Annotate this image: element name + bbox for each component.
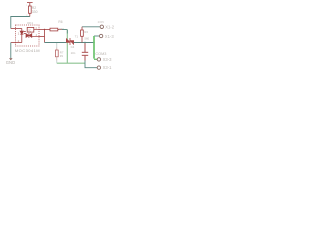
snubber resistor R7 top lead xyxy=(56,43,58,48)
svg-text:360: 360 xyxy=(59,27,64,31)
svg-text:ZC: ZC xyxy=(28,30,31,33)
resistor R2 (top) xyxy=(29,6,32,17)
junction main/green xyxy=(93,42,95,44)
thick green net X1-3 to X3-3 xyxy=(93,36,95,59)
pin 4 stub xyxy=(39,36,45,38)
resistor R4 xyxy=(81,30,84,36)
terminal X1-2 xyxy=(100,25,103,28)
terminal X3-3 xyxy=(97,58,100,61)
zero-cross box inside opto xyxy=(27,27,34,32)
terminal X3-1 xyxy=(97,66,100,69)
svg-text:GND: GND xyxy=(6,60,15,65)
resistor R7 (39) xyxy=(56,50,59,57)
svg-text:X1-3: X1-3 xyxy=(105,34,115,39)
resistor R6 (360) xyxy=(50,28,62,31)
LED inside opto xyxy=(16,29,26,43)
svg-text:330: 330 xyxy=(32,10,38,14)
svg-text:10n: 10n xyxy=(71,51,76,55)
wire C4 to X3-1 xyxy=(85,61,97,68)
svg-text:T1: T1 xyxy=(75,34,79,38)
main wire left xyxy=(45,42,67,44)
green stub to X3-3 xyxy=(94,58,97,60)
terminal X1-3 xyxy=(99,34,102,37)
triac T1 xyxy=(66,38,73,45)
svg-text:C4: C4 xyxy=(71,45,75,49)
R4 bottom lead xyxy=(81,36,83,42)
dashed box optocoupler OK1 xyxy=(16,25,40,46)
main wire right xyxy=(74,42,94,44)
opto triac inside xyxy=(26,30,39,39)
svg-text:OK1: OK1 xyxy=(27,21,33,25)
svg-text:560: 560 xyxy=(84,36,89,40)
opto pin 2 stub xyxy=(11,42,16,44)
power flag bar xyxy=(27,3,33,6)
svg-text:39: 39 xyxy=(60,54,64,58)
svg-text:R6: R6 xyxy=(58,20,62,24)
svg-text:X3-3: X3-3 xyxy=(103,57,113,62)
junction main/C4 xyxy=(84,42,85,43)
junction pin6 xyxy=(44,29,45,30)
svg-text:X3-1: X3-1 xyxy=(103,65,113,70)
wire X1-2 horizontal xyxy=(82,26,100,28)
wire R6 to gate xyxy=(62,29,67,31)
green bottom net horizontal xyxy=(57,62,85,64)
svg-text:MOC3041M: MOC3041M xyxy=(15,48,40,53)
svg-text:230V: 230V xyxy=(98,20,105,24)
capacitor C4 xyxy=(82,43,88,61)
svg-text:COM3: COM3 xyxy=(95,52,106,56)
green gate net vertical xyxy=(66,30,68,64)
wire R2 to opto pin 1 xyxy=(11,17,30,29)
wire pin2 to ground xyxy=(10,43,12,59)
resistor R4 top lead xyxy=(81,27,83,30)
stub X1-3 xyxy=(94,35,99,37)
opto pin 1 stub xyxy=(11,28,16,30)
R7 bottom lead xyxy=(56,57,58,61)
ground xyxy=(9,58,13,60)
svg-text:X1-2: X1-2 xyxy=(105,25,115,30)
svg-text:R4: R4 xyxy=(84,30,88,34)
svg-text:1: 1 xyxy=(18,31,20,35)
svg-text:1: 1 xyxy=(26,5,28,7)
pin 6 lead to R6 xyxy=(39,29,51,31)
pin 4 drop wire xyxy=(44,30,46,43)
